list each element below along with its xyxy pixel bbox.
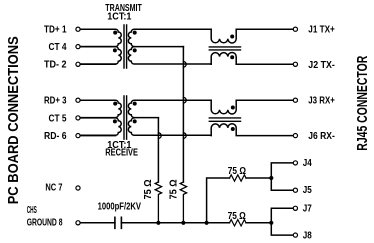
common-mode choke L2 core bbox=[209, 118, 240, 121]
svg-text:1CT:1: 1CT:1 bbox=[107, 12, 131, 23]
svg-text:75 Ω: 75 Ω bbox=[228, 166, 246, 177]
transformer T1 primary winding bottom half (CT to TD-) bbox=[80, 47, 121, 65]
transformer T2 primary winding bottom half (CT to RD-) bbox=[80, 118, 121, 136]
node NC pin 7 terminal circle bbox=[76, 186, 80, 190]
wire chassis ground bus from pin 8 to capacitor bbox=[80, 222, 115, 224]
junction dot fork J7/J8 bbox=[269, 221, 273, 225]
node J3 terminal circle bbox=[293, 98, 297, 102]
svg-text:CT 5: CT 5 bbox=[49, 113, 67, 124]
transformer T1 secondary winding top half bbox=[128, 29, 211, 46]
svg-text:TD+ 1: TD+ 1 bbox=[44, 25, 67, 36]
transformer T2 core bbox=[124, 96, 127, 139]
transformer T2 secondary winding top half bbox=[128, 100, 211, 117]
wire bus resistor R3 to fork node bbox=[246, 222, 271, 224]
node J1 terminal circle bbox=[293, 27, 297, 31]
svg-text:RD- 6: RD- 6 bbox=[44, 131, 67, 142]
common-mode choke L2 bottom winding bbox=[211, 124, 293, 136]
svg-text:J6 RX-: J6 RX- bbox=[308, 131, 335, 142]
common-mode choke L1 core bbox=[209, 47, 240, 50]
wire hop at RX+ wire over TX tap line bbox=[183, 97, 186, 103]
svg-text:J4: J4 bbox=[303, 158, 312, 169]
junction dot R2 bottom at bus bbox=[181, 221, 185, 225]
svg-text:75 Ω: 75 Ω bbox=[228, 211, 246, 222]
common-mode choke L2 top winding bbox=[211, 100, 293, 114]
svg-text:CHS: CHS bbox=[27, 205, 37, 216]
common-mode choke L1 bottom winding bbox=[211, 52, 293, 64]
wire riser from bus to resistor R4 bbox=[207, 178, 230, 223]
svg-text:75 Ω: 75 Ω bbox=[143, 179, 154, 199]
svg-text:J2 TX-: J2 TX- bbox=[308, 60, 335, 71]
wire fork to J7 bbox=[271, 208, 293, 223]
node TD- pin 2 terminal circle bbox=[76, 62, 80, 66]
node CHS GROUND pin 8 terminal circle bbox=[76, 221, 80, 225]
common-mode choke L1 top winding bbox=[211, 29, 293, 43]
junction dot R1 bottom at bus bbox=[156, 221, 160, 225]
svg-text:J7: J7 bbox=[303, 203, 312, 214]
wire hop at RX- wire over RX tap line bbox=[158, 133, 161, 139]
svg-text:J5: J5 bbox=[303, 185, 312, 196]
svg-text:RECEIVE: RECEIVE bbox=[105, 148, 138, 159]
resistor R1 75 ohm vertical zigzag bbox=[155, 182, 161, 223]
svg-text:NC 7: NC 7 bbox=[45, 183, 62, 194]
node CT pin 5 terminal circle bbox=[76, 116, 80, 120]
transformer T1 polarity dots bbox=[113, 31, 137, 53]
svg-text:J3 RX+: J3 RX+ bbox=[308, 96, 335, 107]
capacitor C1 1000pF/2KV plates bbox=[115, 217, 122, 228]
node CT pin 4 terminal circle bbox=[76, 45, 80, 49]
svg-text:RD+ 3: RD+ 3 bbox=[44, 96, 67, 107]
common-mode choke L2 polarity dots bbox=[231, 106, 235, 132]
node RD+ pin 3 terminal circle bbox=[76, 98, 80, 102]
svg-text:1000pF/2KV: 1000pF/2KV bbox=[98, 202, 141, 213]
wire fork to J5 bbox=[271, 178, 293, 190]
wire TX center tap vertical to resistor R2 bbox=[182, 47, 184, 182]
transformer T2 polarity dots bbox=[113, 102, 137, 124]
svg-text:J8: J8 bbox=[303, 230, 312, 241]
svg-text:J1 TX+: J1 TX+ bbox=[308, 25, 335, 36]
node J6 terminal circle bbox=[293, 134, 297, 138]
wire resistor R4 to fork node bbox=[246, 177, 271, 179]
transformer T2 secondary winding bottom half bbox=[128, 118, 211, 135]
common-mode choke L1 polarity dots bbox=[230, 35, 234, 60]
transformer T2 primary winding top half (RD+ to CT) bbox=[80, 100, 121, 117]
junction dot riser at bus bbox=[205, 221, 209, 225]
resistor R3 75 ohm horizontal zigzag in bus bbox=[230, 220, 247, 226]
wire hop at RX- wire over TX tap line bbox=[183, 133, 186, 139]
node J5 terminal circle bbox=[293, 188, 297, 192]
node J7 terminal circle bbox=[293, 206, 297, 210]
transformer T1 core bbox=[124, 25, 127, 68]
wire fork to J8 bbox=[271, 223, 293, 235]
svg-text:RJ45 CONNECTOR: RJ45 CONNECTOR bbox=[355, 55, 371, 150]
wire RX center tap vertical to resistor R1 bbox=[157, 118, 159, 182]
junction dot fork J4/J5 bbox=[269, 176, 273, 180]
node J2 terminal circle bbox=[293, 62, 297, 66]
transformer T1 primary winding top half (TD+ to CT) bbox=[80, 29, 121, 46]
transformer T1 secondary winding bottom half bbox=[128, 47, 211, 64]
svg-text:GROUND 8: GROUND 8 bbox=[27, 217, 63, 228]
node TD+ pin 1 terminal circle bbox=[76, 27, 80, 31]
node J4 terminal circle bbox=[293, 161, 297, 165]
svg-text:75 Ω: 75 Ω bbox=[169, 179, 180, 199]
wire hop at TD- wire over TX tap line bbox=[183, 62, 186, 68]
svg-text:TD- 2: TD- 2 bbox=[44, 60, 67, 71]
node J8 terminal circle bbox=[293, 233, 297, 237]
node RD- pin 6 terminal circle bbox=[76, 134, 80, 138]
wire fork to J4 bbox=[271, 163, 293, 178]
resistor R4 75 ohm horizontal zigzag bbox=[230, 175, 247, 181]
resistor R2 75 ohm vertical zigzag bbox=[180, 182, 186, 223]
svg-text:PC BOARD CONNECTIONS: PC BOARD CONNECTIONS bbox=[5, 36, 22, 204]
svg-text:CT 4: CT 4 bbox=[49, 42, 67, 53]
wire chassis bus capacitor to resistor R3 bbox=[121, 222, 229, 224]
